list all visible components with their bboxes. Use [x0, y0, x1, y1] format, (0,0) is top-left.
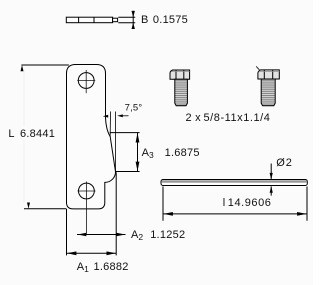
dimension B arrows — [132, 11, 135, 29]
svg-text:5/8-11x1.1/4: 5/8-11x1.1/4 — [204, 112, 271, 124]
top hole — [78, 73, 94, 89]
top bar: plate side view — [66, 17, 117, 23]
svg-text:2 x: 2 x — [186, 112, 202, 124]
dimension A3 arrows — [136, 133, 140, 171]
dimension B extension lines — [118, 11, 135, 29]
bottom bar: rod side view — [161, 180, 307, 186]
plate front view outline — [67, 65, 116, 209]
svg-text:2: 2 — [286, 157, 292, 169]
svg-text:1.6882: 1.6882 — [94, 261, 129, 273]
dimension L extension lines — [21, 65, 69, 209]
svg-text:2: 2 — [138, 232, 143, 242]
svg-text:1.1252: 1.1252 — [150, 229, 185, 241]
dimension L arrows — [21, 65, 31, 209]
diameter 2 leader — [270, 164, 272, 196]
dimension L faint line — [23, 70, 25, 203]
svg-text:1: 1 — [84, 264, 89, 274]
svg-text:6.8441: 6.8441 — [20, 128, 55, 140]
svg-text:3: 3 — [149, 150, 154, 160]
svg-text:1.6875: 1.6875 — [165, 147, 200, 159]
svg-text:l: l — [223, 197, 226, 209]
angle 7.5 arrows — [103, 114, 123, 117]
svg-text:L: L — [8, 128, 14, 140]
svg-text:14.9606: 14.9606 — [228, 197, 272, 209]
dimension A2 line — [77, 234, 126, 236]
bolt right — [256, 66, 279, 105]
svg-text:B: B — [141, 14, 149, 26]
dimension A1 arrows — [67, 251, 116, 255]
dimension l extension lines — [163, 187, 307, 221]
dimension l arrows — [163, 212, 306, 216]
bolt left — [170, 70, 190, 106]
dimension A3 extension lines — [110, 133, 140, 172]
dimension A2 arrows — [78, 233, 126, 237]
bottom hole — [79, 183, 95, 199]
svg-text:7,5°: 7,5° — [125, 102, 143, 113]
angle 7.5 reference lines — [110, 112, 128, 172]
dimension A2 extension line right — [67, 172, 117, 255]
svg-text:Ø: Ø — [276, 157, 285, 169]
dimension A1 line — [67, 252, 117, 254]
svg-text:0.1575: 0.1575 — [153, 14, 188, 26]
